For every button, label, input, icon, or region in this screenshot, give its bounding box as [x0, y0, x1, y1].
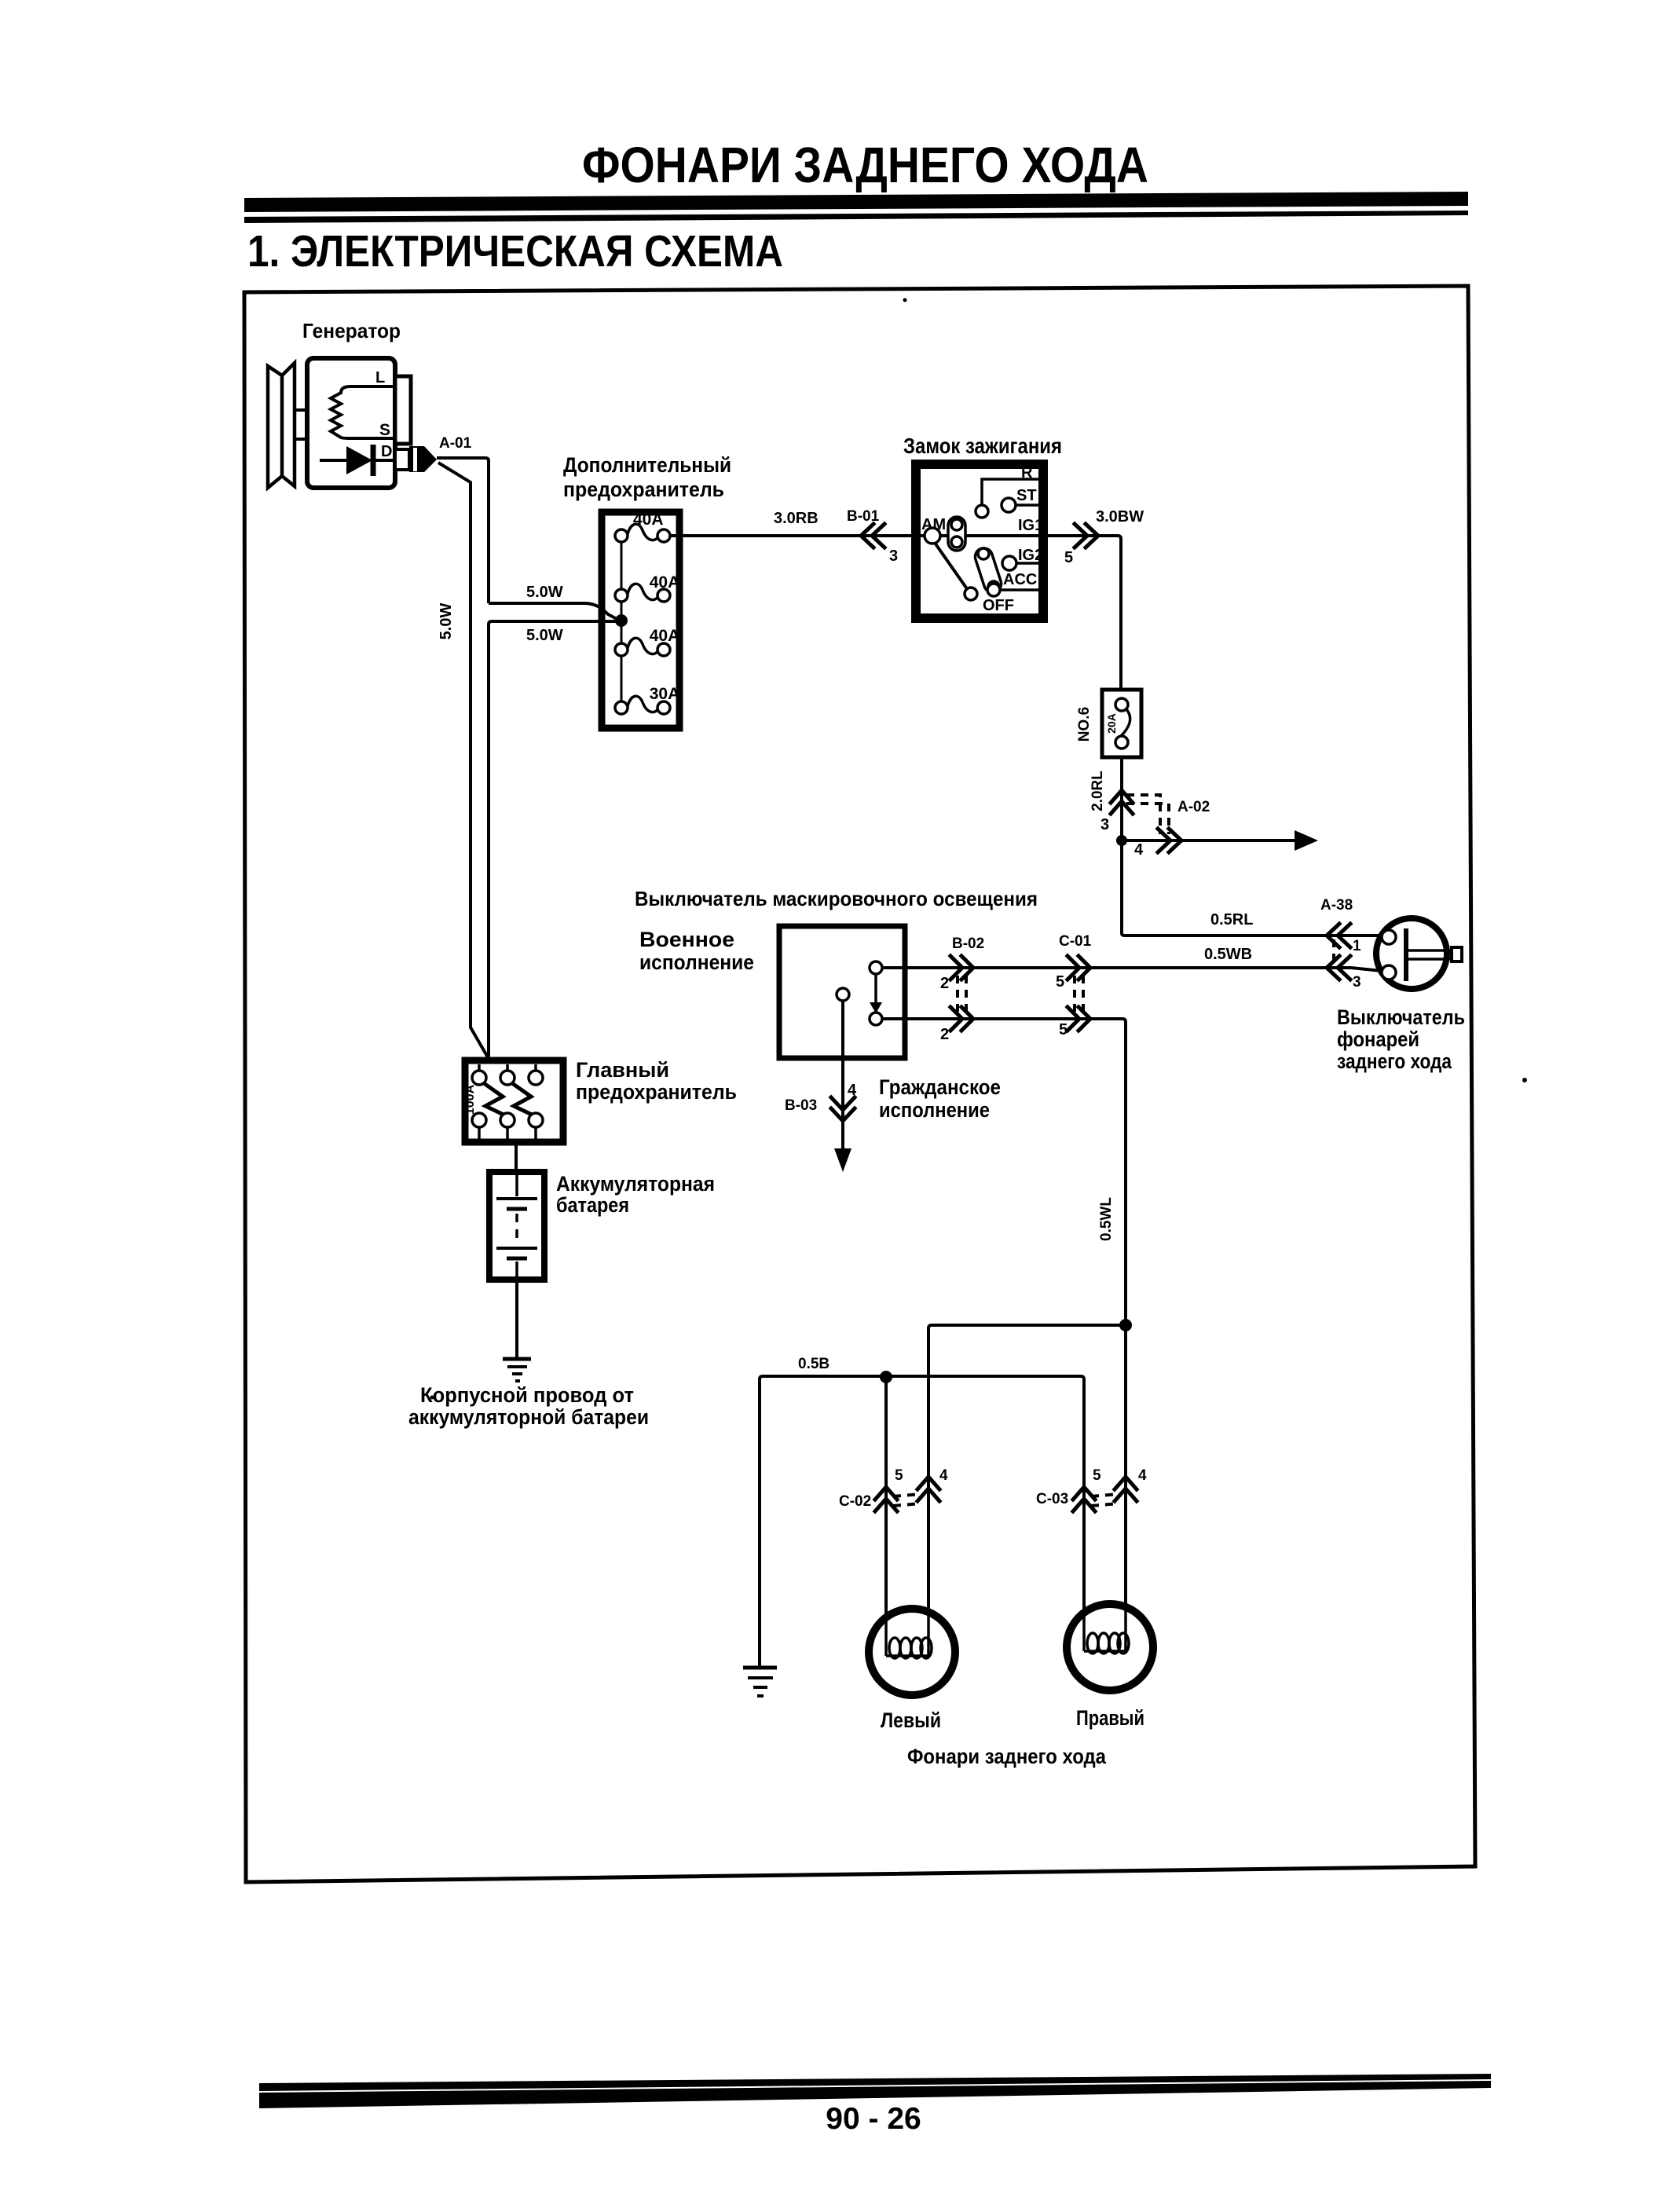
battery ground symbol: [503, 1359, 531, 1381]
terminal AM contact: [921, 516, 946, 544]
scan speck 1: [903, 298, 907, 302]
svg-text:A-01: A-01: [439, 435, 472, 452]
fuse F4 30A: [615, 685, 679, 714]
svg-text:3: 3: [1353, 974, 1361, 991]
generator side terminal tab: [395, 376, 411, 444]
ignition switch box: [916, 464, 1043, 618]
connector A-38 chevrons on 0.5WB: [1327, 956, 1350, 980]
vertical contact pill: [948, 517, 965, 551]
wire from A-01 to aux fuse (upper 5.0W run): [437, 458, 489, 603]
svg-text:Гражданское: Гражданское: [879, 1075, 1001, 1099]
connector C-01 chevrons lower: [1068, 1007, 1090, 1031]
svg-text:A-38: A-38: [1320, 897, 1353, 914]
svg-text:фонарей: фонарей: [1337, 1027, 1419, 1051]
svg-text:Военное: Военное: [639, 928, 734, 951]
svg-text:ST: ST: [1016, 487, 1037, 504]
svg-text:3.0BW: 3.0BW: [1096, 508, 1144, 526]
svg-text:0.5WB: 0.5WB: [1204, 946, 1252, 963]
fuse F3 40A: [615, 627, 679, 656]
terminal R cell: [976, 464, 1038, 518]
svg-text:Фонари заднего хода: Фонари заднего хода: [907, 1745, 1107, 1768]
svg-text:0.5WL: 0.5WL: [1098, 1197, 1115, 1241]
label Гражданское исполнение: [879, 1075, 1001, 1122]
connector C-02 dashed link: [893, 1494, 921, 1496]
connector B-02 chevrons lower: [950, 1007, 973, 1031]
svg-text:D: D: [381, 443, 392, 460]
blackout switch terminals: [837, 961, 882, 1025]
svg-text:5: 5: [895, 1467, 903, 1484]
svg-text:AM: AM: [921, 516, 946, 533]
svg-text:Замок зажигания: Замок зажигания: [903, 434, 1062, 458]
fuse F1 40A: [615, 511, 670, 542]
svg-text:40A: 40A: [633, 511, 664, 529]
connector A-02 dashed link: [1126, 795, 1160, 834]
reverse light switch symbol: [1376, 918, 1462, 989]
ground wire label Корпусной провод от аккумуляторной батареи: [408, 1383, 649, 1429]
svg-text:Аккумуляторная: Аккумуляторная: [556, 1172, 715, 1196]
branch wire with arrow to other circuits: [1122, 830, 1318, 851]
svg-text:5: 5: [1059, 1021, 1068, 1038]
wire B-03 from switch to civil circuit (arrow down): [834, 1001, 851, 1172]
connector C-03 chevrons (pin5 up): [1073, 1487, 1095, 1511]
wire branch to left lamp (pin 4): [928, 1325, 1126, 1638]
scan speck 2: [430, 1396, 434, 1400]
scan speck 3: [1522, 1078, 1527, 1082]
terminal IG2 cell: [1002, 547, 1043, 570]
svg-text:30A: 30A: [650, 685, 680, 703]
svg-text:3: 3: [889, 548, 898, 565]
generator shaft: [295, 410, 309, 439]
connector chevrons on B-03 (down): [831, 1097, 855, 1121]
main fuse label Главный предохранитель: [576, 1058, 737, 1104]
connector chevrons on branch wire: [1158, 829, 1181, 852]
generator pulley: [268, 363, 295, 488]
svg-text:исполнение: исполнение: [879, 1098, 990, 1122]
wire main fuse to battery: [515, 1142, 518, 1172]
battery box: [489, 1172, 544, 1280]
svg-text:1: 1: [1353, 938, 1361, 954]
connector B-02 chevrons upper: [950, 956, 973, 980]
svg-text:2.0RL: 2.0RL: [1090, 771, 1106, 811]
svg-text:ФОНАРИ ЗАДНЕГО ХОДА: ФОНАРИ ЗАДНЕГО ХОДА: [582, 137, 1148, 193]
connector C-03 chevrons (pin4 up): [1115, 1477, 1137, 1501]
svg-text:Выключатель: Выключатель: [1337, 1005, 1465, 1029]
main fuse internals 100A: [463, 1064, 543, 1139]
aux fuse box body: [602, 512, 679, 728]
svg-text:4: 4: [848, 1082, 857, 1099]
svg-text:IG2: IG2: [1018, 547, 1043, 564]
aux fuse internal bus: [621, 536, 623, 708]
connector A-38 chevrons on 0.5RL: [1327, 924, 1350, 947]
junction at aux fuse bus: [615, 614, 628, 627]
svg-text:B-03: B-03: [785, 1097, 817, 1114]
svg-text:B-01: B-01: [847, 508, 880, 525]
svg-text:Дополнительный: Дополнительный: [563, 453, 731, 477]
svg-text:R: R: [1021, 464, 1033, 482]
svg-text:OFF: OFF: [983, 597, 1014, 614]
connector C-01 chevrons upper: [1068, 956, 1090, 980]
svg-text:5.0W: 5.0W: [438, 603, 455, 640]
svg-text:NO.6: NO.6: [1076, 707, 1093, 742]
svg-text:0.5RL: 0.5RL: [1210, 911, 1253, 928]
wire 0.5WL continues to right lamp (pin 4): [1124, 1325, 1127, 1636]
svg-text:Главный: Главный: [576, 1058, 669, 1082]
connector B-02 dashed link: [956, 976, 959, 1013]
svg-text:предохранитель: предохранитель: [576, 1080, 737, 1104]
junction node on 0.5B: [880, 1371, 892, 1383]
wire lower 5.0W run from aux fuse bus down to main fuse: [489, 621, 620, 1059]
wire 0.5WB from blackout switch to reverse switch: [882, 968, 1382, 971]
aux fuse label Дополнительный предохранитель: [563, 453, 731, 501]
wire 3.0BW from ignition to NO.6 fuse: [1043, 536, 1121, 690]
svg-text:C-01: C-01: [1059, 933, 1092, 950]
svg-text:ACC: ACC: [1003, 571, 1037, 588]
wire battery to chassis ground: [515, 1280, 518, 1358]
connector C-02 chevrons (pin4 up): [917, 1477, 939, 1501]
junction node at A-02: [1116, 835, 1127, 846]
connector C-02 chevrons (pin5 up): [875, 1487, 897, 1511]
svg-text:аккумуляторной батареи: аккумуляторной батареи: [408, 1405, 649, 1429]
wire upper 5.0W into fuse bus: [489, 603, 620, 621]
svg-text:4: 4: [1134, 841, 1144, 859]
svg-text:Корпусной провод от: Корпусной провод от: [420, 1383, 634, 1407]
ignition switch internal wire AM-IG1: [921, 534, 1048, 537]
civil position arrow inside switch: [870, 975, 882, 1013]
svg-text:2: 2: [940, 975, 949, 992]
svg-text:IG1: IG1: [1018, 517, 1043, 534]
svg-text:S: S: [379, 421, 390, 439]
fuse NO.6 box: [1102, 690, 1141, 757]
svg-text:A-02: A-02: [1177, 799, 1210, 815]
svg-text:4: 4: [1138, 1467, 1147, 1484]
connector C-01 dashed link: [1073, 976, 1076, 1013]
terminal ACC contact circle: [987, 584, 1000, 596]
svg-text:1. ЭЛЕКТРИЧЕСКАЯ СХЕМА: 1. ЭЛЕКТРИЧЕСКАЯ СХЕМА: [247, 226, 783, 276]
wire 0.5B ground run: [760, 1376, 1084, 1667]
svg-text:40A: 40A: [650, 627, 680, 645]
connector B-01 chevrons: [861, 524, 884, 548]
svg-text:20A: 20A: [1105, 713, 1118, 734]
svg-text:предохранитель: предохранитель: [563, 478, 724, 501]
wire 2.0RL from NO.6 down to junction and 0.5RL corner: [1122, 757, 1125, 936]
svg-text:исполнение: исполнение: [639, 950, 754, 974]
connector A-38 dashed link: [1332, 939, 1335, 964]
svg-text:3.0RB: 3.0RB: [774, 510, 819, 527]
title double rule: [244, 192, 1468, 223]
chassis ground symbol (0.5B): [743, 1668, 777, 1696]
terminal ST cell: [1002, 487, 1038, 512]
svg-text:Левый: Левый: [881, 1708, 941, 1732]
wire 0.5RL from A-02 junction to reverse switch: [1125, 934, 1382, 937]
fuse F2 40A: [615, 573, 679, 602]
wire 3.0RB from aux fuse to ignition switch: [670, 534, 916, 537]
svg-text:5.0W: 5.0W: [526, 627, 563, 644]
svg-text:батарея: батарея: [556, 1193, 629, 1217]
svg-text:2: 2: [940, 1026, 949, 1043]
battery label Аккумуляторная батарея: [556, 1172, 715, 1217]
fuse NO.6 element: [1115, 698, 1130, 749]
connector chevrons on 3.0BW: [1075, 524, 1098, 548]
svg-text:Правый: Правый: [1076, 1706, 1144, 1730]
diagonal contact pill: [973, 546, 1004, 595]
svg-text:заднего хода: заднего хода: [1337, 1049, 1452, 1073]
svg-text:3: 3: [1101, 816, 1109, 833]
connector chevrons on 2.0RL (up): [1111, 790, 1133, 814]
svg-text:Выключатель маскировочного осв: Выключатель маскировочного освещения: [635, 887, 1038, 910]
left reverse lamp: [869, 1609, 955, 1695]
svg-text:5: 5: [1093, 1467, 1101, 1484]
connector C-03 dashed link: [1091, 1494, 1119, 1496]
terminal ACC cell: [998, 571, 1038, 590]
svg-text:40A: 40A: [650, 573, 680, 591]
svg-text:C-03: C-03: [1036, 1491, 1068, 1507]
connector A-01 plug symbol: [395, 446, 437, 472]
switch wiper AM-OFF: [935, 543, 968, 590]
blackout switch box: [779, 926, 905, 1058]
svg-text:0.5B: 0.5B: [798, 1356, 829, 1372]
svg-text:L: L: [375, 369, 385, 386]
svg-text:90 - 26: 90 - 26: [826, 2102, 921, 2136]
main fuse box: [465, 1060, 563, 1142]
svg-text:5: 5: [1056, 973, 1064, 991]
svg-text:100A: 100A: [463, 1084, 477, 1115]
right reverse lamp: [1067, 1604, 1153, 1690]
terminal OFF contact: [965, 588, 1014, 614]
svg-text:4: 4: [939, 1467, 948, 1484]
generator diode: [320, 445, 395, 476]
reverse switch label Выключатель фонарей заднего хода: [1337, 1005, 1465, 1073]
svg-text:C-02: C-02: [839, 1493, 871, 1510]
junction node on 0.5WL: [1119, 1319, 1132, 1331]
generator body box: [307, 358, 395, 488]
label Военное исполнение: [639, 928, 754, 974]
wire from A-01 down to main fuse (long vertical): [438, 463, 488, 1057]
generator field winding (resistor zigzag loop): [331, 386, 395, 438]
svg-text:Генератор: Генератор: [302, 319, 401, 342]
svg-text:5.0W: 5.0W: [526, 584, 563, 601]
battery cells: [496, 1175, 537, 1277]
wire 0.5WL start: blackout switch lower output: [882, 1019, 1126, 1325]
footer rule: [259, 2074, 1491, 2108]
svg-text:5: 5: [1064, 549, 1073, 566]
svg-text:B-02: B-02: [952, 936, 984, 952]
wire branch to left lamp (pin 5): [884, 1377, 888, 1638]
